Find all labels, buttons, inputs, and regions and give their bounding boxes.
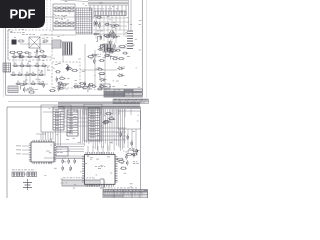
- svg-text:PDF: PDF: [10, 7, 36, 22]
